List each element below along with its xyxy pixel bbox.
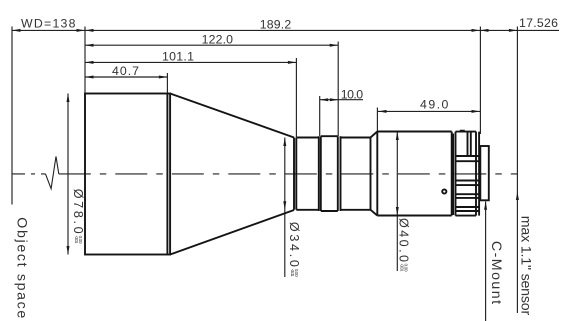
svg-text:10.0: 10.0	[341, 87, 363, 101]
svg-text:49.0: 49.0	[420, 98, 449, 112]
svg-text:C-Mount: C-Mount	[488, 241, 504, 304]
svg-text:Ø34.0: Ø34.0	[287, 222, 301, 267]
svg-text:max 1.1" sensor: max 1.1" sensor	[517, 216, 533, 316]
svg-text:-0.01: -0.01	[289, 269, 295, 277]
svg-text:17.526: 17.526	[519, 16, 558, 30]
svg-text:40.7: 40.7	[112, 64, 139, 78]
svg-text:Ø78.0: Ø78.0	[71, 189, 85, 234]
svg-text:101.1: 101.1	[162, 49, 194, 63]
svg-text:-0.01: -0.01	[73, 236, 79, 244]
svg-text:Ø40.0: Ø40.0	[397, 218, 411, 262]
svg-text:189.2: 189.2	[260, 18, 292, 32]
svg-text:122.0: 122.0	[202, 33, 234, 47]
svg-text:-0.01: -0.01	[398, 264, 404, 272]
svg-text:WD=138: WD=138	[21, 17, 76, 31]
svg-text:Object space: Object space	[13, 217, 29, 318]
